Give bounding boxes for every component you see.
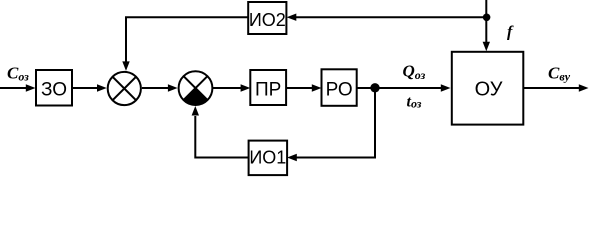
wire summer1 to summer2 bbox=[142, 87, 168, 89]
block ЗО bbox=[36, 70, 72, 106]
block ОУ bbox=[452, 52, 524, 125]
svg-text:tоз: tоз bbox=[407, 94, 422, 111]
wire РО to ОУ bbox=[357, 87, 441, 89]
wire node dot down to ИО1 bbox=[297, 88, 376, 158]
block ПР bbox=[250, 70, 286, 105]
wire output from ОУ bbox=[523, 87, 579, 89]
wire f disturbance input into ОУ bbox=[485, 0, 487, 43]
svg-text:РО: РО bbox=[326, 79, 353, 100]
wire summer2 to ПР bbox=[212, 87, 241, 89]
node junction dot after РО bbox=[370, 83, 379, 92]
svg-text:ПР: ПР bbox=[255, 79, 281, 100]
wire ИО1 to summer2 bottom bbox=[195, 116, 248, 158]
block РО bbox=[322, 69, 357, 106]
summing junction 1 bbox=[108, 72, 141, 105]
wire ЗО to summer1 bbox=[72, 87, 98, 89]
wire ПР to РО bbox=[286, 87, 312, 89]
node junction dot on f line bbox=[483, 13, 491, 21]
svg-text:ИО2: ИО2 bbox=[249, 10, 286, 30]
wire input arrow into ЗО bbox=[0, 87, 27, 89]
block ИО1 bbox=[249, 141, 288, 176]
svg-text:ОУ: ОУ bbox=[475, 78, 503, 100]
svg-text:ИО1: ИО1 bbox=[249, 148, 286, 168]
wire ИО2 to summer1 top bbox=[126, 17, 248, 62]
block ИО2 bbox=[248, 2, 286, 34]
wire from f-line dot to ИО2 bbox=[296, 16, 487, 18]
svg-text:ЗО: ЗО bbox=[41, 79, 67, 100]
summing junction 2 with filled bottom sector bbox=[179, 71, 213, 105]
